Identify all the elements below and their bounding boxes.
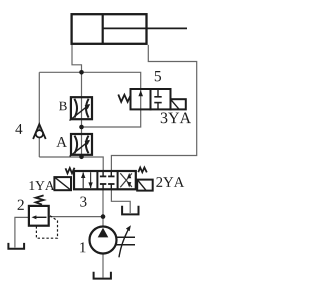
- wire node3 to valve 3 A port: [82, 157, 104, 172]
- node junction dot node1: [79, 70, 84, 75]
- pilot dashed line of relief valve 2: [36, 216, 57, 239]
- throttle valve B: [70, 97, 93, 120]
- label 3: [80, 197, 86, 207]
- middle square blocked ports of valve 3: [102, 172, 104, 177]
- tank under pump: [94, 272, 111, 279]
- spring right of valve 3: [138, 168, 147, 173]
- label A: [56, 137, 67, 147]
- wire node1 down through valve B to node2: [81, 72, 83, 127]
- solenoid 2YA box: [137, 180, 153, 191]
- node junction dot node3: [79, 155, 84, 160]
- label 1: [80, 242, 85, 252]
- valve 3 three-position four-way solenoid valve: [54, 168, 152, 191]
- wire valve 3 T port to tank: [111, 189, 130, 213]
- node junction dot node2: [79, 125, 84, 130]
- label 1YA: [30, 181, 55, 190]
- spring of relief valve 2: [36, 195, 44, 204]
- node junction dot node4: [101, 214, 106, 219]
- wire node1 horizontal left to check-valve branch: [39, 71, 81, 73]
- check valve 4: [33, 124, 46, 139]
- solenoid 1YA box: [54, 177, 71, 190]
- label 5: [155, 71, 161, 81]
- wire relief valve 2 outlet to tank: [15, 217, 29, 247]
- tank under relief valve 2: [8, 243, 24, 249]
- relief valve 2: [29, 195, 58, 238]
- label 2: [18, 200, 24, 210]
- wire pump bottom to tank: [102, 254, 104, 278]
- wire check valve bottom to node3: [39, 156, 81, 158]
- wire node4 down to pump: [102, 217, 104, 227]
- blocked port symbols in right square of valve 5: [157, 89, 159, 97]
- valve 5 two-position two-way solenoid valve: [118, 89, 186, 109]
- spring left of valve 3: [66, 168, 75, 174]
- wire cylinder left port down to node A-line: [72, 45, 82, 72]
- label B: [59, 102, 67, 111]
- pump 1 variable displacement: [90, 225, 136, 257]
- wire left branch down to check valve 4: [38, 72, 40, 157]
- label 4: [15, 124, 22, 134]
- spring of valve 5: [118, 95, 130, 102]
- wire node4 left to relief valve 2: [49, 216, 103, 218]
- solenoid 3YA box: [171, 99, 186, 109]
- label 2YA: [156, 177, 184, 187]
- hydraulic cylinder: [72, 14, 187, 44]
- wire node1 horizontal right to valve 5: [82, 72, 141, 127]
- left square parallel arrows of valve 3: [82, 172, 84, 188]
- tank under T port of valve 3: [122, 206, 138, 215]
- label 3YA: [161, 113, 191, 124]
- arrow up in left square of valve 5: [138, 90, 143, 96]
- wire valve 3 P port down to node4: [102, 189, 104, 217]
- wire cylinder right port to right rail: [111, 45, 196, 172]
- right square crossed arrows of valve 3: [120, 173, 132, 187]
- throttle valve A: [70, 134, 92, 156]
- wire node2 down through valve A to node3: [81, 127, 83, 157]
